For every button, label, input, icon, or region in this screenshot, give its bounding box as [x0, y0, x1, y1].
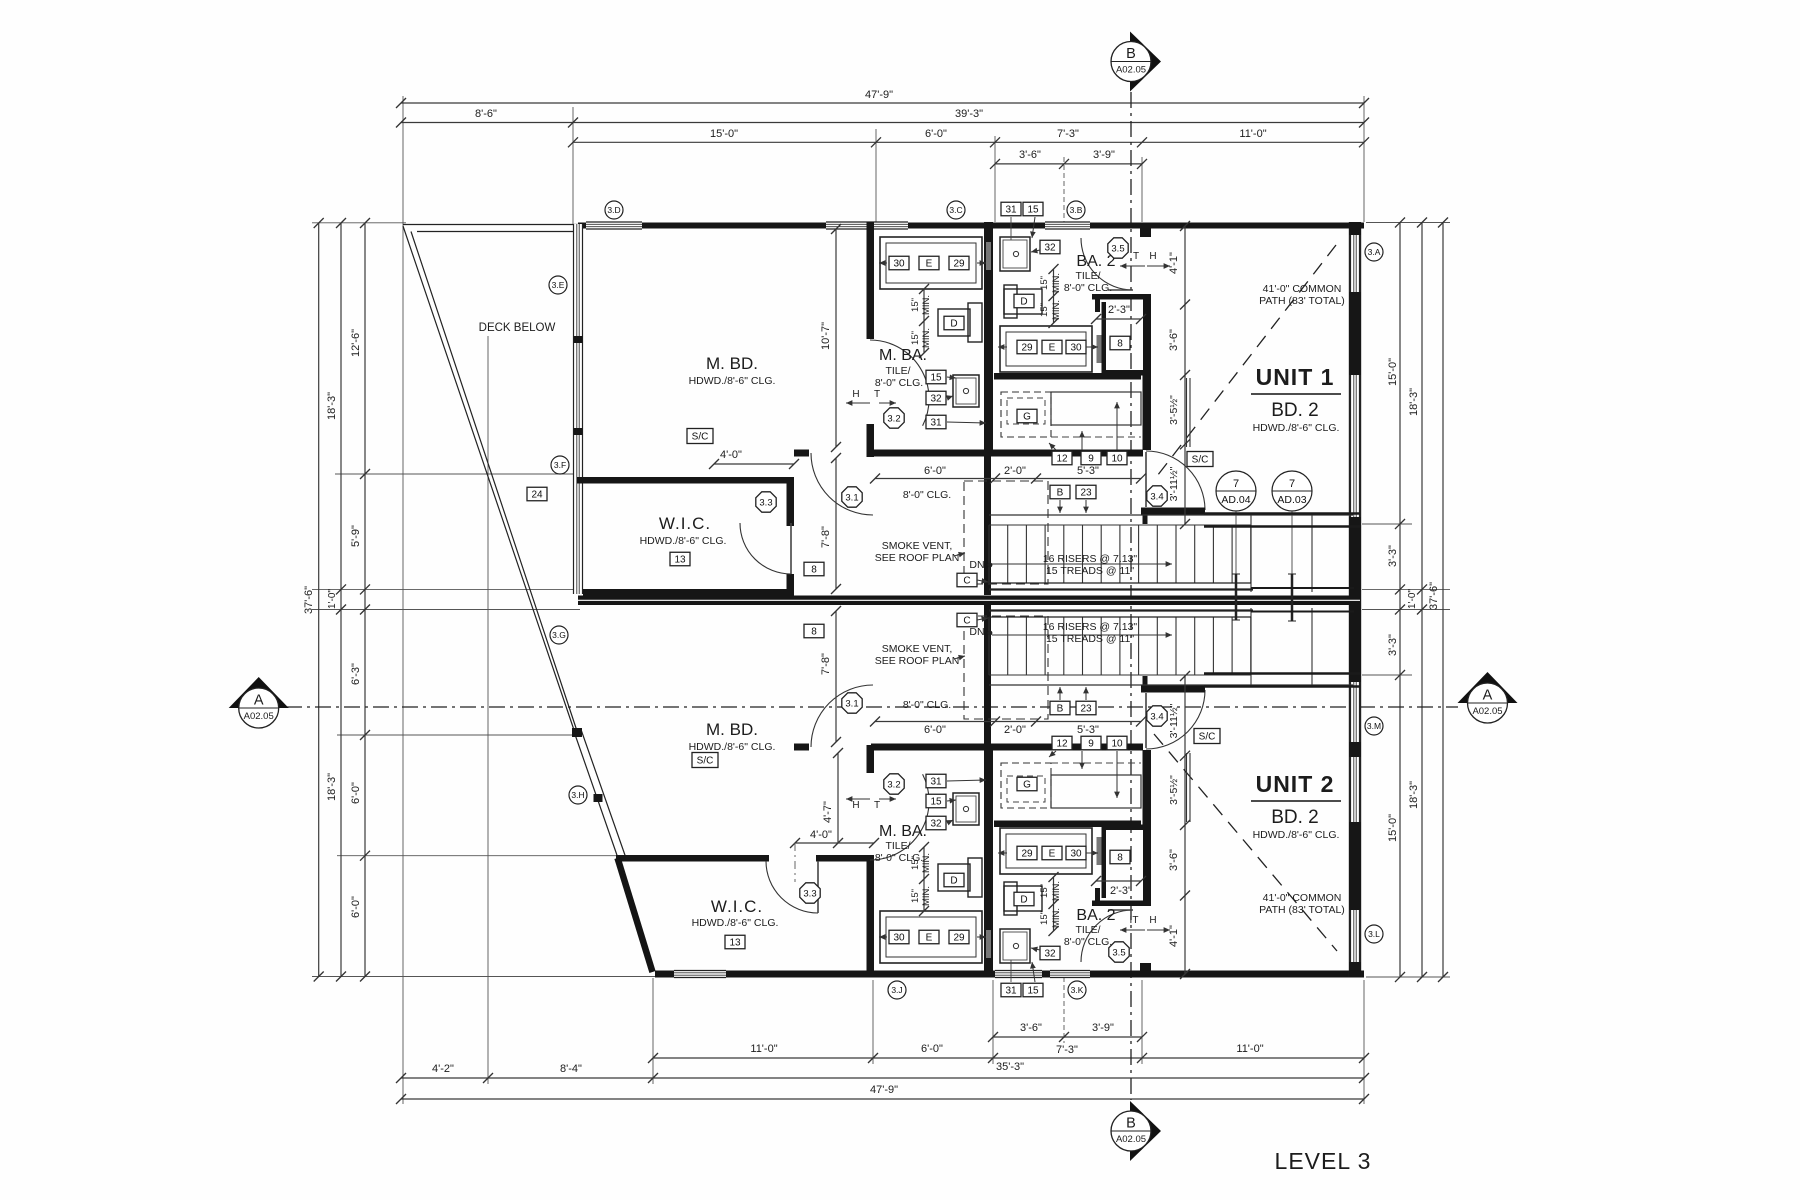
svg-text:3'-11½": 3'-11½" [1168, 466, 1180, 501]
lower M.BA pocket door hatch [986, 930, 991, 958]
box 8 lower hall [804, 624, 824, 638]
door tag 3.2 lower [884, 774, 904, 794]
svg-text:PATH (83' TOTAL): PATH (83' TOTAL) [1259, 904, 1345, 916]
svg-text:18'-3": 18'-3" [1408, 388, 1420, 416]
upper S/C box hall [687, 429, 713, 444]
dim top 15-0 6-0 7-3 11-0 [573, 141, 1364, 143]
grid bubble 3.C [947, 201, 965, 219]
svg-text:4'-1": 4'-1" [1168, 252, 1180, 274]
grid bubble 3.A [1365, 243, 1383, 261]
svg-text:8'-6": 8'-6" [475, 108, 497, 120]
svg-text:AD.03: AD.03 [1277, 494, 1306, 506]
svg-text:29: 29 [1021, 343, 1033, 354]
BA.2 upper east wall stub at top [1140, 228, 1151, 237]
svg-text:3.D: 3.D [607, 205, 620, 215]
svg-text:4'-1": 4'-1" [1168, 925, 1180, 947]
svg-text:15'-0": 15'-0" [710, 128, 738, 140]
svg-text:W.I.C.: W.I.C. [711, 897, 763, 916]
extension lines bottom [487, 336, 489, 1084]
svg-text:30: 30 [1070, 849, 1082, 860]
window 3.B in top wall [1045, 222, 1090, 229]
exterior wall right [1349, 222, 1351, 977]
svg-text:15": 15" [910, 298, 921, 312]
svg-text:3'-6": 3'-6" [1168, 329, 1180, 351]
grid bubble 3.E [549, 276, 567, 294]
svg-text:M. BA.: M. BA. [879, 823, 927, 840]
svg-text:MIN.: MIN. [1051, 300, 1062, 320]
svg-text:30: 30 [893, 933, 905, 944]
stairwell west wall lower [984, 605, 991, 745]
svg-text:3'-9": 3'-9" [1093, 149, 1115, 161]
svg-text:13: 13 [729, 938, 741, 949]
svg-text:6'-0": 6'-0" [921, 1043, 943, 1055]
svg-text:11'-0": 11'-0" [1236, 1043, 1263, 1055]
stair landing top edge line upper [989, 514, 1353, 516]
svg-text:2'-3": 2'-3" [1110, 885, 1132, 897]
lower W.I.C. walls [616, 855, 769, 862]
svg-text:A02.05: A02.05 [244, 711, 274, 722]
svg-text:32: 32 [930, 394, 942, 405]
window 3.J in bottom wall [674, 971, 726, 978]
lower dim 4-7 and 4-0 at W.I.C. [837, 753, 839, 843]
svg-text:18'-3": 18'-3" [326, 773, 338, 801]
svg-text:3'-6": 3'-6" [1019, 149, 1041, 161]
door tag 3.3 lower [800, 883, 820, 903]
grid bubble 3.B [1067, 201, 1085, 219]
deck below - outline [403, 224, 578, 226]
svg-text:15: 15 [1027, 986, 1039, 997]
AD.04 callout circle [1216, 471, 1256, 511]
svg-text:A02.05: A02.05 [1472, 706, 1502, 717]
svg-text:3.F: 3.F [554, 460, 566, 470]
sink lower M.BA [953, 793, 979, 825]
svg-text:C: C [963, 576, 970, 587]
svg-text:B: B [1126, 1116, 1136, 1132]
unit2 entry stub + landing wall [1143, 676, 1148, 693]
svg-text:4'-0": 4'-0" [720, 449, 742, 461]
svg-text:8'-0" CLG.: 8'-0" CLG. [903, 699, 951, 711]
svg-text:2'-0": 2'-0" [1004, 465, 1026, 477]
svg-text:SEE ROOF PLAN: SEE ROOF PLAN [875, 552, 960, 564]
west window-wall of lower unit (diagonal) [575, 733, 620, 861]
lower hall door 3.1 arc [811, 685, 873, 747]
lower S/C box hall [692, 753, 718, 768]
svg-text:HDWD./8'-6" CLG.: HDWD./8'-6" CLG. [640, 535, 727, 547]
svg-text:8'-4": 8'-4" [560, 1063, 582, 1075]
grid bubble 3.F [551, 456, 569, 474]
vanity upper M.BA [880, 237, 982, 289]
party wall between units [578, 596, 1360, 606]
sink upper M.BA [953, 375, 979, 407]
stair landing bottom edge line lower [989, 684, 1353, 686]
svg-text:4'-7": 4'-7" [822, 801, 834, 823]
landing edge extension lower [1251, 611, 1354, 613]
svg-text:C: C [963, 616, 970, 627]
pocket door hatch upper closet [1097, 335, 1102, 363]
toilet upper BA.2 [1004, 289, 1042, 314]
smoke vent shaft dashed upper [964, 481, 1048, 584]
svg-text:3.E: 3.E [552, 280, 565, 290]
svg-text:12: 12 [1056, 454, 1068, 465]
grid bubble 3.L [1365, 925, 1383, 943]
svg-text:3.3: 3.3 [759, 497, 772, 508]
svg-text:D: D [1020, 895, 1027, 906]
svg-text:4'-2": 4'-2" [432, 1063, 454, 1075]
upper dim 7-8 hall [835, 458, 837, 589]
svg-text:15'-0": 15'-0" [1387, 358, 1399, 386]
BA.2 lower east wall stub at bottom [1140, 963, 1151, 972]
svg-text:W.I.C.: W.I.C. [659, 514, 711, 533]
extension lines top [402, 96, 404, 1104]
svg-text:35'-3": 35'-3" [996, 1061, 1024, 1073]
svg-text:6'-0": 6'-0" [925, 128, 947, 140]
dim right 18-3 1-0 18-3 [1421, 223, 1423, 978]
stairwell west wall upper [984, 455, 991, 595]
lower interior vdim 3-11 3-5 3-6 4-1 [1184, 676, 1186, 974]
svg-text:E: E [926, 259, 933, 270]
svg-text:MIN.: MIN. [1051, 908, 1062, 928]
svg-text:15": 15" [1039, 911, 1050, 925]
lower hall north wall y=747 [794, 744, 809, 751]
svg-text:3'-9": 3'-9" [1092, 1022, 1114, 1034]
svg-text:G: G [1023, 412, 1031, 423]
svg-text:T: T [874, 389, 880, 400]
svg-text:8'-0" CLG.: 8'-0" CLG. [875, 852, 923, 864]
toilet lower BA.2 [1004, 886, 1042, 911]
svg-text:HDWD./8'-6" CLG.: HDWD./8'-6" CLG. [689, 375, 776, 387]
sink lower BA.2 [1000, 929, 1030, 963]
svg-text:8: 8 [1117, 339, 1123, 350]
svg-text:UNIT 1: UNIT 1 [1256, 364, 1335, 390]
svg-text:23: 23 [1080, 488, 1092, 499]
svg-text:31: 31 [930, 777, 942, 788]
svg-text:H: H [1149, 915, 1156, 926]
dim top 47-9 [401, 102, 1364, 104]
smoke vent shaft dashed lower [964, 616, 1048, 719]
door tag 3.2 upper [884, 408, 904, 428]
BA.2 upper door 3.5 arc [1081, 238, 1133, 290]
dim left 18-3 1-0 18-3 [340, 223, 342, 977]
svg-text:3.4: 3.4 [1150, 491, 1163, 502]
upper BA.2 T H arrows [1120, 265, 1145, 267]
upper M.BA H T arrows [846, 402, 870, 404]
dim left 12-6 5-9 6-3 6-0 6-0 [364, 223, 366, 977]
svg-text:3'-3": 3'-3" [1387, 545, 1399, 567]
fixture boxes lower BA.2 [1040, 946, 1060, 960]
lower unit M.BD east wall [867, 745, 875, 773]
upper M.BA pocket door hatch [986, 242, 991, 270]
box 24 deck [527, 487, 547, 501]
svg-text:3.2: 3.2 [887, 413, 900, 424]
grid bubble 3.M [1365, 717, 1383, 735]
lower dim 2-3 closet [1096, 880, 1141, 882]
svg-text:9: 9 [1088, 739, 1094, 750]
svg-text:3'-6": 3'-6" [1168, 849, 1180, 871]
svg-text:47'-9": 47'-9" [870, 1084, 898, 1096]
pocket door hatch lower closet [1097, 837, 1102, 865]
svg-text:37'-6": 37'-6" [1428, 582, 1440, 610]
svg-text:37'-6": 37'-6" [303, 586, 315, 614]
upper dim 2-3 closet [1096, 318, 1141, 320]
svg-text:15": 15" [910, 889, 921, 903]
BA.2 lower door 3.5 arc [1081, 910, 1133, 962]
sink upper BA.2 [1000, 237, 1030, 271]
svg-text:A: A [1483, 688, 1493, 704]
svg-text:7'-3": 7'-3" [1057, 128, 1079, 140]
svg-text:16 RISERS @ 7.13": 16 RISERS @ 7.13" [1043, 553, 1138, 565]
svg-text:15": 15" [1039, 276, 1050, 290]
vanity lower M.BA [880, 911, 982, 963]
upper hall door 3.1 arc [811, 453, 873, 515]
svg-text:IT: IT [1130, 915, 1139, 926]
vanity faucet triangle upper M.BA [977, 262, 986, 264]
unit1 common path diagonal [1154, 245, 1336, 480]
grid bubble 3.H [569, 786, 587, 804]
door tag 3.5 upper [1108, 238, 1128, 258]
svg-text:3.5: 3.5 [1111, 243, 1124, 254]
boxes B 23 upper corridor [1050, 485, 1070, 499]
svg-text:1'-0": 1'-0" [1407, 589, 1418, 609]
grab bar AD.03 [1291, 574, 1294, 621]
svg-text:8'-0" CLG.: 8'-0" CLG. [875, 377, 923, 389]
upper W.I.C. door 3.3 arc [740, 523, 791, 574]
svg-text:HDWD./8'-6" CLG.: HDWD./8'-6" CLG. [1253, 829, 1340, 841]
upper S/C box entry [1187, 452, 1213, 467]
svg-text:32: 32 [1044, 243, 1056, 254]
svg-text:M. BD.: M. BD. [706, 720, 758, 739]
dim bottom 11-0 6-0 7-3 11-0 [653, 1057, 1364, 1059]
lower M.BA H T arrows [846, 798, 870, 800]
svg-text:29: 29 [1021, 849, 1033, 860]
vanity lower BA.2 [1000, 828, 1092, 874]
svg-text:29: 29 [953, 259, 965, 270]
section marker B bottom [1130, 1101, 1161, 1161]
svg-text:BD. 2: BD. 2 [1271, 807, 1319, 828]
svg-text:7'-3": 7'-3" [1056, 1044, 1078, 1056]
wall M.BA/BA.2 upper (x=988) [984, 222, 993, 455]
svg-text:3.3: 3.3 [803, 888, 816, 899]
stair direction arrow lower [992, 634, 1172, 636]
svg-text:31: 31 [1005, 205, 1017, 216]
lower S/C box entry [1194, 729, 1220, 744]
extension lines right [1366, 222, 1450, 224]
vanity faucet triangle lower M.BA [977, 936, 986, 938]
svg-text:3'-3": 3'-3" [1387, 634, 1399, 656]
svg-text:39'-3": 39'-3" [955, 108, 983, 120]
svg-text:15: 15 [930, 797, 942, 808]
svg-text:29: 29 [953, 933, 965, 944]
dim top 3-6 / 3-9 [995, 163, 1142, 165]
svg-text:8: 8 [811, 627, 817, 638]
svg-text:6'-0": 6'-0" [350, 782, 362, 804]
grid bubble 3.K [1068, 981, 1086, 999]
svg-text:B: B [1126, 46, 1136, 62]
upper interior vdim 4-1 3-6 3-5 3-11 [1184, 226, 1186, 524]
box C lower + arrow [957, 613, 977, 627]
vestibule wall upper (unit1 entry) [1143, 375, 1152, 450]
svg-text:24: 24 [531, 490, 543, 501]
svg-text:MIN.: MIN. [921, 886, 932, 906]
svg-text:9: 9 [1088, 454, 1094, 465]
svg-text:SMOKE VENT,: SMOKE VENT, [882, 643, 953, 655]
mech G dashed upper [1001, 392, 1051, 437]
boxes 12 9 10 lower [1052, 736, 1072, 750]
stair direction arrow upper [992, 563, 1172, 565]
svg-text:41'-0" COMMON: 41'-0" COMMON [1263, 892, 1342, 904]
vanity upper BA.2 [1000, 326, 1092, 372]
door tag 3.5 lower [1109, 942, 1129, 962]
svg-text:LEVEL 3: LEVEL 3 [1275, 1148, 1372, 1174]
svg-text:3.4: 3.4 [1150, 711, 1163, 722]
svg-text:7: 7 [1233, 478, 1239, 490]
svg-text:4'-0": 4'-0" [810, 829, 832, 841]
svg-text:MIN.: MIN. [921, 295, 932, 315]
svg-text:18'-3": 18'-3" [326, 392, 338, 420]
unit2 entry door 3.4 arc [1146, 690, 1205, 749]
svg-text:8: 8 [1117, 853, 1123, 864]
svg-text:3'-5½": 3'-5½" [1168, 395, 1180, 425]
svg-text:41'-0" COMMON: 41'-0" COMMON [1263, 283, 1342, 295]
svg-text:UNIT 2: UNIT 2 [1256, 771, 1335, 797]
svg-text:11'-0": 11'-0" [1239, 128, 1266, 140]
svg-text:15": 15" [1039, 303, 1050, 317]
svg-text:1'-0": 1'-0" [327, 589, 338, 609]
svg-text:3.A: 3.A [1368, 247, 1381, 257]
svg-text:15": 15" [1039, 884, 1050, 898]
BA.2 upper south wall [994, 373, 1141, 380]
svg-text:23: 23 [1080, 704, 1092, 715]
svg-text:3.2: 3.2 [887, 779, 900, 790]
closet 8 lower walls [1092, 901, 1149, 907]
svg-text:DECK BELOW: DECK BELOW [479, 322, 556, 334]
west window-wall of upper unit (grid 3.E/3.F) [574, 224, 583, 480]
stair lower handrail [989, 616, 1251, 618]
svg-text:6'-3": 6'-3" [350, 663, 362, 685]
svg-text:H: H [852, 800, 859, 811]
deck below - diagonal rail [403, 226, 574, 730]
grid bubble 3.G [550, 626, 568, 644]
dim bottom 3-6 / 3-9 [993, 1036, 1142, 1038]
svg-text:12: 12 [1056, 739, 1068, 750]
svg-text:47'-9": 47'-9" [865, 89, 893, 101]
section marker B top [1130, 32, 1161, 92]
upper M.BA 15in dims [923, 289, 925, 353]
svg-text:D: D [1020, 297, 1027, 308]
svg-text:A02.05: A02.05 [1116, 1134, 1146, 1145]
svg-text:10'-7": 10'-7" [820, 322, 832, 350]
svg-text:3.L: 3.L [1368, 929, 1380, 939]
svg-text:12'-6": 12'-6" [350, 329, 362, 357]
dim right 37-6 [1442, 223, 1444, 978]
svg-text:G: G [1023, 780, 1031, 791]
lower BA.2 T H arrows [1120, 929, 1145, 931]
exterior wall top [578, 223, 1364, 229]
svg-text:3.K: 3.K [1071, 985, 1084, 995]
fixture boxes upper M.BA [889, 256, 909, 270]
svg-text:HDWD./8'-6" CLG.: HDWD./8'-6" CLG. [689, 741, 776, 753]
lower M.BA 15in dims [923, 847, 925, 911]
svg-text:S/C: S/C [692, 432, 709, 443]
svg-text:3.G: 3.G [552, 630, 566, 640]
grid bubble 3.J [888, 981, 906, 999]
mech soffit rect lower [1051, 775, 1141, 808]
svg-text:MIN.: MIN. [1051, 273, 1062, 293]
svg-text:8: 8 [811, 565, 817, 576]
svg-text:TILE/: TILE/ [1075, 924, 1100, 936]
svg-text:H: H [852, 389, 859, 400]
svg-text:3.5: 3.5 [1112, 947, 1125, 958]
svg-text:8'-0" CLG.: 8'-0" CLG. [1064, 936, 1112, 948]
stair flight upper - treads [989, 524, 1251, 526]
svg-text:M. BA.: M. BA. [879, 347, 927, 364]
svg-text:DN: DN [969, 559, 984, 571]
svg-text:6'-0": 6'-0" [924, 465, 946, 477]
upper BA.2 15in dims [1053, 269, 1055, 323]
window in bottom wall at M.BA [995, 971, 1042, 978]
lower W.I.C. door 3.3 arc [766, 861, 818, 913]
BA.2 lower north wall [994, 821, 1141, 828]
svg-text:11'-0": 11'-0" [750, 1043, 777, 1055]
door tag 3.3 upper [756, 492, 776, 512]
fixture boxes upper BA.2 [1040, 240, 1060, 254]
grab bar AD.04 [1235, 574, 1238, 620]
boxes B 23 lower corridor [1050, 701, 1070, 715]
window 3.D in top wall [586, 222, 642, 229]
section line B-B vertical [1130, 92, 1132, 1100]
svg-text:3.H: 3.H [571, 790, 584, 800]
landing south wall double line upper east [1204, 512, 1360, 515]
svg-text:30: 30 [1070, 343, 1082, 354]
lower BA.2 15in dims [1053, 877, 1055, 931]
stair flight lower - treads [989, 674, 1251, 676]
lower hall dim 6-0 2-0 5-3 [875, 721, 1141, 723]
upper hall south wall y=453 [794, 450, 809, 457]
unit1 entry stub + landing wall [1143, 508, 1148, 525]
dim top 8-6 / 39-3 [401, 122, 1364, 124]
box 8 upper hall [804, 562, 824, 576]
svg-text:HDWD./8'-6" CLG.: HDWD./8'-6" CLG. [692, 917, 779, 929]
svg-text:3.J: 3.J [891, 985, 902, 995]
svg-text:TILE/: TILE/ [1075, 270, 1100, 282]
svg-text:TILE/: TILE/ [885, 840, 910, 852]
svg-text:30: 30 [893, 259, 905, 270]
svg-text:10: 10 [1111, 454, 1123, 465]
door tag 3.1 upper [842, 487, 862, 507]
svg-text:A: A [254, 693, 264, 709]
svg-text:BD. 2: BD. 2 [1271, 400, 1319, 421]
svg-text:7'-8": 7'-8" [820, 526, 832, 548]
toilet lower M.BA [938, 864, 970, 891]
svg-text:3'-6": 3'-6" [1020, 1022, 1042, 1034]
vanity faucet triangle lower BA.2 [998, 852, 1007, 854]
window right wall lower 1 [1351, 682, 1360, 742]
svg-text:D: D [950, 319, 957, 330]
dim right 15-0 3-3 3-3 15-0 [1399, 223, 1401, 978]
arrows 15/32/31 upper M.BA [947, 377, 956, 378]
svg-text:5'-9": 5'-9" [350, 525, 362, 547]
section marker A left [229, 677, 289, 708]
svg-text:3.1: 3.1 [845, 492, 858, 503]
svg-text:3.1: 3.1 [845, 698, 858, 709]
grid bubble 3.D [605, 201, 623, 219]
upper dim 4-0 near S/C [714, 463, 794, 465]
svg-text:3'-11½": 3'-11½" [1168, 703, 1180, 738]
upper W.I.C. walls [577, 477, 794, 484]
svg-text:15": 15" [910, 331, 921, 345]
upper hall dim 6-0 2-0 5-3 [875, 478, 1141, 480]
svg-text:T: T [1133, 251, 1139, 262]
svg-text:HDWD./8'-6" CLG.: HDWD./8'-6" CLG. [1253, 422, 1340, 434]
